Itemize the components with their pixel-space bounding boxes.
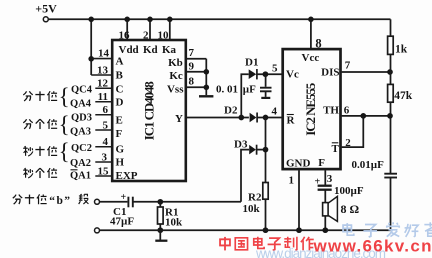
svg-text:10k: 10k: [243, 203, 261, 215]
svg-text:QD3: QD3: [71, 113, 92, 124]
svg-text:0. 01: 0. 01: [216, 84, 238, 96]
svg-text:2: 2: [143, 29, 149, 41]
svg-text:QA2: QA2: [70, 158, 91, 169]
wire D1 to pin5: [257, 73, 282, 75]
svg-text:R: R: [287, 115, 296, 127]
svg-text:{: {: [59, 84, 70, 109]
junction DIS/1k/47k: [387, 69, 393, 75]
wire Kb-Kc-Vss tie: [205, 59, 207, 95]
pin stub 6 E: [95, 114, 112, 116]
speaker 8ohm: [323, 196, 338, 221]
svg-text:15: 15: [98, 166, 110, 178]
svg-text:D2: D2: [224, 104, 238, 116]
pin stub 14 A: [91, 58, 112, 60]
svg-text:47µF: 47µF: [110, 215, 134, 227]
svg-text:F: F: [318, 157, 325, 169]
svg-text:8: 8: [315, 37, 321, 51]
wire pin3 F down: [324, 171, 326, 186]
svg-text:3: 3: [102, 151, 108, 163]
IC1 CD4048 box: [112, 40, 186, 181]
pin stub 7 DIS: [342, 71, 391, 73]
wire D3 to bus: [257, 149, 266, 151]
ground 0.01uF: [261, 97, 270, 99]
IC2 NE555 box: [283, 49, 341, 169]
watermark red zhongguo dianzi zhizuo CJK: [220, 237, 314, 251]
svg-text:C: C: [116, 83, 124, 95]
pin stub 13 B: [91, 74, 112, 76]
svg-text:0.01µF: 0.01µF: [352, 159, 385, 171]
svg-text:3: 3: [327, 173, 333, 185]
svg-text:G: G: [116, 143, 125, 155]
svg-text:9: 9: [189, 61, 195, 73]
junction R2 bottom: [263, 227, 269, 233]
svg-text:D: D: [116, 97, 124, 109]
svg-text:8 Ω: 8 Ω: [341, 202, 360, 216]
svg-text:IC2 NE555: IC2 NE555: [303, 82, 318, 136]
ground IC1 Vss: [199, 95, 213, 97]
svg-text:1k: 1k: [395, 43, 408, 55]
svg-text:“b”: “b”: [49, 195, 71, 207]
pin stub 11 D: [95, 101, 112, 103]
svg-text:QC2: QC2: [71, 143, 92, 154]
svg-text:D1: D1: [245, 56, 258, 68]
pin stub 12 C: [95, 87, 112, 89]
wire cap to bottom rail: [390, 178, 392, 231]
capacitor C1 47uF plates: [128, 197, 132, 208]
svg-text:R2: R2: [248, 191, 262, 203]
svg-text:7: 7: [345, 59, 351, 71]
wire C1 to D3 branch: [133, 201, 241, 203]
svg-text:5: 5: [103, 119, 109, 131]
label fen-ge-wei (minutes units): [23, 119, 57, 129]
svg-text:DIS: DIS: [321, 67, 339, 79]
node terminal b-segment: [95, 199, 100, 204]
svg-text:5: 5: [272, 63, 278, 75]
svg-text:Vss: Vss: [167, 84, 184, 96]
svg-text:12: 12: [97, 77, 109, 89]
junction Y/D1 branch: [238, 115, 244, 121]
pin stub 9 Kc: [186, 71, 207, 73]
wire pins14/13 feed: [90, 19, 92, 75]
resistor R2 body: [263, 183, 268, 200]
wire pin16 Vdd: [126, 19, 128, 40]
svg-text:6: 6: [103, 104, 109, 116]
svg-text:14: 14: [98, 47, 110, 59]
label miao-ge-wei (seconds units): [23, 168, 57, 178]
resistor 47k body: [388, 84, 394, 102]
junction rail pin10: [167, 17, 173, 23]
svg-text:GND: GND: [286, 158, 311, 170]
svg-text:1: 1: [289, 174, 295, 186]
wire pin8 IC2 Vcc: [310, 19, 312, 48]
pin stub 7 Kb: [186, 58, 207, 60]
wire +5V top rail: [48, 18, 390, 20]
svg-text:100µF: 100µF: [334, 185, 364, 197]
svg-text:Vc: Vc: [286, 69, 299, 81]
svg-text:Vcc: Vcc: [302, 52, 320, 64]
node +5V terminal: [43, 17, 48, 22]
svg-text:2: 2: [345, 137, 351, 149]
wire pin2 Kd: [149, 19, 151, 40]
svg-text:47k: 47k: [394, 90, 413, 102]
svg-text:TH: TH: [323, 105, 339, 117]
junction D1/C-0.01: [263, 71, 269, 77]
junction D3 cathode: [263, 147, 269, 153]
svg-text:{: {: [59, 112, 70, 137]
svg-text:D3: D3: [234, 138, 248, 150]
junction TH/pin2: [360, 113, 366, 119]
wire down to 0.01uF: [265, 74, 267, 87]
junction rail pin16: [124, 17, 130, 23]
svg-text:Vdd: Vdd: [119, 44, 139, 56]
svg-text:B: B: [116, 70, 124, 82]
svg-text:+: +: [121, 192, 127, 203]
diode D3: [249, 145, 256, 155]
junction rail pin8 IC2: [308, 17, 314, 23]
svg-text:10k: 10k: [165, 216, 183, 228]
wire Y up to D1: [241, 74, 248, 117]
junction on rail at x91: [88, 17, 94, 23]
svg-text:µF: µF: [243, 84, 256, 96]
pin stub 15 EXP: [95, 175, 112, 177]
wire speaker to rail: [324, 216, 326, 230]
pin stub 5 F: [95, 129, 112, 131]
junction pin1 bottom: [296, 227, 302, 233]
pin stub 8 Vss: [186, 86, 207, 88]
wire 47k down: [390, 102, 392, 173]
wire R2 to bottom rail: [265, 199, 267, 230]
svg-text:{: {: [59, 139, 70, 164]
label R-bar (reset): [287, 115, 296, 127]
svg-text:4: 4: [103, 136, 109, 148]
pin stub 6 TH: [342, 115, 391, 117]
wire pin10 Ka: [169, 19, 171, 40]
svg-text:QA4: QA4: [70, 99, 92, 110]
junction R1 top: [157, 199, 163, 205]
svg-text:QA3: QA3: [70, 127, 91, 138]
wire 0.01uF to ground: [265, 91, 267, 97]
svg-text:QC4: QC4: [71, 85, 93, 96]
wire 1k to 47k rail: [390, 54, 392, 84]
wire R1 bottom lead: [159, 224, 161, 230]
svg-text:E: E: [116, 114, 123, 126]
junction Kc: [204, 69, 210, 75]
wire R1 top lead: [159, 202, 161, 207]
capacitor 0.01uF (TH): [384, 174, 397, 178]
wire D3 anode from C1 node: [241, 150, 249, 202]
svg-text:10: 10: [158, 29, 170, 41]
svg-text:IC1 CD4048: IC1 CD4048: [141, 81, 156, 141]
wire Y output: [186, 117, 249, 119]
svg-text:F: F: [116, 128, 123, 140]
wire pin2 to TH: [342, 116, 364, 147]
label QA1 with bar: [70, 170, 91, 182]
wire pin1 GND down: [298, 171, 300, 231]
capacitor 100uF plates: [318, 186, 332, 190]
svg-text:16: 16: [119, 29, 131, 41]
label fen-shi-wei (minutes tens): [23, 91, 57, 101]
svg-text:Kb: Kb: [168, 57, 183, 69]
svg-text:QA1: QA1: [70, 170, 91, 181]
svg-text:7: 7: [189, 47, 195, 59]
svg-text:Ka: Ka: [162, 44, 177, 56]
svg-text:8: 8: [189, 76, 195, 88]
junction Vss: [204, 85, 210, 91]
svg-text:EXP: EXP: [116, 170, 138, 182]
watermark blue dianzi aihaozhe CJK: [343, 222, 432, 237]
wire D2 to pin4: [257, 117, 281, 119]
diode D1: [249, 69, 257, 79]
svg-text:T: T: [332, 143, 340, 155]
svg-text:+: +: [315, 177, 321, 188]
junction D2/D3 net: [263, 115, 269, 121]
pin stub 4 G: [95, 146, 112, 148]
svg-text:+5V: +5V: [35, 1, 57, 15]
label T-bar (trigger): [332, 143, 340, 155]
label miao-shi-wei (seconds tens): [23, 146, 57, 156]
svg-text:4: 4: [272, 106, 278, 118]
svg-text:Kd: Kd: [143, 44, 158, 56]
wire right rail down to 1k: [390, 19, 392, 36]
svg-text:13: 13: [97, 65, 109, 77]
diode D2: [250, 113, 258, 123]
junction R1 bottom: [157, 227, 163, 233]
wire terminal to C1: [100, 201, 128, 203]
svg-text:H: H: [116, 157, 125, 169]
resistor 1k body: [388, 36, 394, 54]
wire 100uF to speaker: [324, 190, 326, 203]
label fen-shi-wei "b" duan: [13, 194, 47, 204]
junction rail pin2: [147, 17, 153, 23]
wire bottom rail: [100, 229, 391, 231]
wire cathode bus down: [265, 118, 267, 183]
svg-text:6: 6: [344, 104, 350, 116]
svg-text:Kc: Kc: [169, 70, 183, 82]
label duan (segment): [79, 194, 89, 204]
pin stub 3 H: [95, 161, 112, 163]
junction pin14: [88, 56, 94, 62]
capacitor 0.01uF (pin5): [260, 88, 272, 92]
ground R1: [155, 230, 167, 241]
svg-text:A: A: [116, 56, 124, 68]
svg-text:Y: Y: [175, 113, 183, 125]
resistor R1 body: [158, 207, 164, 224]
svg-text:11: 11: [98, 91, 108, 103]
junction speaker bottom: [322, 227, 328, 233]
node terminal bottom: [95, 228, 100, 233]
junction TH/right rail: [387, 113, 393, 119]
